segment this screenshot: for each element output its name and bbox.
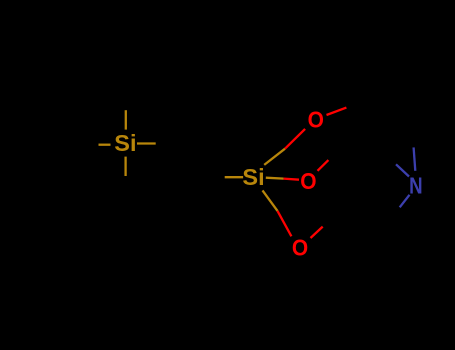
svg-text:Si: Si	[114, 130, 136, 156]
svg-text:Si: Si	[242, 164, 264, 190]
svg-text:O: O	[308, 107, 324, 133]
svg-text:N: N	[409, 172, 423, 198]
svg-text:O: O	[300, 168, 316, 194]
svg-text:O: O	[292, 234, 308, 260]
